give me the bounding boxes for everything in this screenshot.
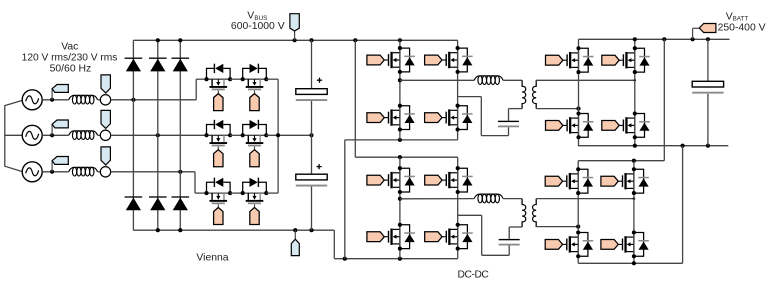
- wire Lr2 to transformer T2 primary: [503, 198, 522, 200]
- wire primary bridge 1 right leg: [457, 40, 459, 140]
- transistor Q21 sec-bridge2 LS left: [545, 230, 593, 258]
- tag phase C (blue, pointing down): [101, 147, 110, 167]
- wire primary bridge 1 left leg: [398, 40, 402, 140]
- capacitor Cr1 resonant (bridge 1): [498, 121, 519, 128]
- wire between Vienna pair row 1: [230, 78, 243, 80]
- wire primary bridge 2 left leg: [398, 157, 402, 259]
- wire V+ feed to secondary bridge 2: [578, 39, 664, 169]
- transistor Q16 sec-bridge1 HS right: [602, 46, 650, 74]
- tag flag phase C: [52, 157, 68, 165]
- node circle phase B: [100, 130, 110, 140]
- node circle phase C: [100, 167, 110, 177]
- transistor Q15 sec-bridge1 HS left: [546, 46, 594, 74]
- transistor Q2a Vienna switch (row 2 left): [204, 120, 232, 167]
- transistor Q3b Vienna switch (row 3 right): [241, 178, 269, 225]
- transistor Q12 bridge2 HS right: [425, 166, 473, 194]
- transformer T1 secondary winding: [533, 80, 537, 108]
- wire Vienna cells right side to midpoint: [266, 79, 313, 193]
- svg-text:120 V rms/230 V rms: 120 V rms/230 V rms: [22, 53, 118, 64]
- wire phase A to bridge and switch cell: [111, 79, 207, 102]
- wire Cr2 to bridge2 right switch node: [458, 215, 510, 255]
- label VBATT: [718, 11, 766, 33]
- transistor Q22 sec-bridge2 LS right: [601, 230, 649, 258]
- wire diode column 1: [132, 40, 134, 230]
- capacitor Cr2 resonant (bridge 2): [499, 239, 520, 246]
- transistor Q20 sec-bridge2 HS right: [601, 167, 649, 195]
- tag VBUS (blue, pointing down): [290, 14, 299, 41]
- diode D6 bottom (phase C): [172, 196, 190, 210]
- svg-text:50/60 Hz: 50/60 Hz: [50, 64, 92, 75]
- tag flag phase B: [52, 120, 68, 128]
- wire bottom DC bus: [133, 228, 457, 261]
- svg-text:Vienna: Vienna: [196, 253, 228, 264]
- transformer T2 primary winding: [522, 199, 526, 227]
- wire T1 primary bottom to Cr1: [509, 109, 523, 121]
- wire secondary bridge 2 bottom rail: [578, 146, 682, 266]
- wire secondary bridge 2 right leg: [633, 169, 635, 263]
- wire secondary bridge 2 left leg: [577, 169, 579, 263]
- wire neutral bus joining AC sources: [5, 100, 23, 171]
- inductor Lr1 resonant (bridge 1): [474, 76, 503, 85]
- wire T2 secondary bottom to rectifier left leg: [536, 225, 580, 229]
- label Vac: [61, 42, 78, 53]
- wire between Vienna pair row 3: [230, 192, 243, 194]
- diode D3 top (phase C): [172, 58, 190, 72]
- diode D4 bottom (phase A): [125, 196, 143, 210]
- wire VBATT positive rail: [579, 37, 730, 41]
- wire T2 primary bottom to Cr2: [509, 227, 522, 239]
- AC source phase A: [22, 90, 42, 110]
- wire phase B to bridge and switch cell: [111, 133, 207, 137]
- wire bus capacitor column: [311, 40, 313, 230]
- transistor Q1b Vienna switch (row 1 right): [241, 64, 269, 111]
- tag flag phase A: [52, 85, 68, 93]
- svg-text:Vac: Vac: [61, 42, 78, 53]
- wire top DC bus: [133, 38, 457, 42]
- wire Cr1 to bridge1 right switch node: [458, 97, 509, 136]
- wire diode column 2: [157, 40, 159, 230]
- diode D1 top (phase A): [125, 58, 143, 72]
- label 120 V rms/230 V rms: [22, 53, 118, 64]
- wire T1 secondary top to rectifier right leg: [536, 79, 636, 82]
- transistor Q13 bridge2 LS left: [367, 223, 415, 251]
- capacitor C1 bus top (+): [296, 78, 327, 101]
- wire secondary bridge 1 left leg: [578, 39, 580, 145]
- AC source phase C: [22, 162, 42, 182]
- wire upper bridge negative return: [345, 138, 458, 259]
- inductor LC (boost/filter choke): [69, 167, 98, 176]
- wire phase A to inductor: [42, 89, 68, 102]
- transistor Q8 bridge1 HS right: [425, 46, 473, 74]
- diode D2 top (phase B): [149, 58, 167, 72]
- transistor Q17 sec-bridge1 LS left: [546, 111, 594, 139]
- transistor Q1a Vienna switch (row 1 left): [204, 64, 232, 111]
- wire primary bridge 2 right leg: [457, 157, 459, 259]
- transistor Q2b Vienna switch (row 2 right): [241, 120, 269, 167]
- label Vienna: [196, 253, 228, 264]
- wire coil A to node circle: [98, 99, 101, 101]
- tag phase A (blue, pointing down): [101, 75, 110, 95]
- wire output capacitor column: [707, 39, 709, 145]
- transistor Q18 sec-bridge1 LS right: [602, 111, 650, 139]
- wire secondary bridge 1 right leg: [634, 39, 636, 145]
- node circle phase A: [100, 95, 110, 105]
- wire coil B to node circle: [98, 134, 101, 136]
- svg-text:DC-DC: DC-DC: [458, 269, 490, 280]
- transistor Q3a Vienna switch (row 3 left): [204, 178, 232, 225]
- svg-text:V: V: [247, 11, 254, 22]
- wire T2 secondary top to rectifier right leg: [536, 197, 635, 200]
- transistor Q19 sec-bridge2 HS left: [545, 167, 593, 195]
- wire between Vienna pair row 2: [230, 134, 243, 136]
- transistor Q11 bridge2 HS left: [367, 166, 415, 194]
- wire bridge1 switch node to resonant inductor: [400, 79, 474, 81]
- wire top bus feed to lower bridge (V+): [355, 40, 457, 159]
- svg-text:BATT: BATT: [733, 16, 749, 23]
- transistor Q10 bridge1 LS right: [425, 104, 473, 132]
- transformer T1 primary winding: [522, 80, 526, 108]
- svg-text:250-400 V: 250-400 V: [718, 23, 766, 34]
- label DC-DC: [458, 269, 490, 280]
- wire VBATT negative rail: [578, 144, 728, 148]
- diode D5 bottom (phase B): [149, 196, 167, 210]
- wire Lr1 to transformer T1 primary: [503, 79, 522, 81]
- inductor LA (boost/filter choke): [69, 95, 98, 104]
- transformer T2 secondary winding: [533, 199, 537, 227]
- capacitor C2 bus bottom (+): [296, 164, 327, 187]
- transistor Q14 bridge2 LS right: [425, 223, 473, 251]
- wire phase C to bridge and switch cell: [111, 170, 207, 193]
- wire phase B to inductor: [42, 124, 68, 137]
- inductor Lr2 resonant (bridge 2): [474, 194, 503, 203]
- wire bridge2 switch node to resonant inductor: [400, 198, 474, 200]
- transistor Q9 bridge1 LS left: [367, 104, 415, 132]
- tag phase B (blue, pointing down): [101, 110, 110, 130]
- tag bus midpoint return (blue, pointing up): [291, 230, 299, 255]
- wire T1 secondary bottom to rectifier left leg: [536, 107, 580, 111]
- svg-text:600-1000 V: 600-1000 V: [231, 21, 285, 32]
- label 50/60 Hz: [50, 64, 92, 75]
- wire phase C to inductor: [42, 161, 68, 174]
- wire coil C to node circle: [98, 171, 101, 173]
- capacitor C3 output: [692, 81, 723, 93]
- wire diode column 3: [179, 40, 181, 230]
- tag VBATT (peach, pointing left): [693, 24, 716, 40]
- transistor Q7 bridge1 HS left: [367, 46, 415, 74]
- label VBUS: [231, 11, 285, 32]
- inductor LB (boost/filter choke): [69, 131, 98, 140]
- AC source phase B: [22, 125, 42, 145]
